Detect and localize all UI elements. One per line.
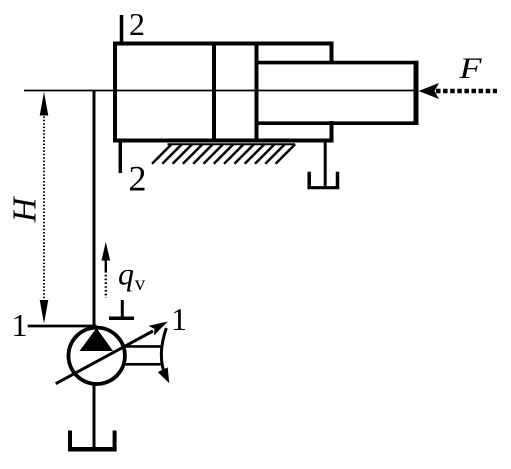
svg-text:2: 2 <box>129 6 145 42</box>
svg-text:v: v <box>135 271 146 295</box>
svg-text:F: F <box>458 52 482 85</box>
svg-text:2: 2 <box>129 159 147 199</box>
svg-text:q: q <box>118 256 134 292</box>
svg-text:1: 1 <box>12 307 28 343</box>
svg-text:1: 1 <box>171 301 187 337</box>
svg-text:H: H <box>7 195 44 223</box>
